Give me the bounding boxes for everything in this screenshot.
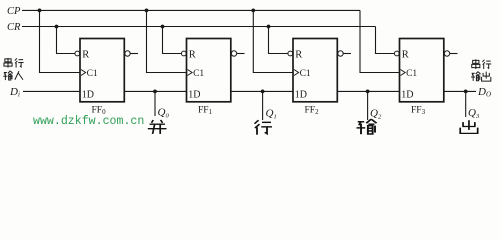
CR drop to FF0 R — [57, 27, 75, 54]
label 串行 (serial) output, right — [472, 59, 491, 69]
CR drop to FF3 R — [376, 27, 395, 54]
node Q3 junction and drop — [464, 90, 468, 94]
junction dot CR-FF2 — [267, 25, 271, 29]
CR drop to FF1 R — [163, 27, 182, 54]
svg-text:Q3: Q3 — [468, 107, 480, 120]
CP drop to FF2 C1 — [253, 10, 293, 72]
svg-text:www.dzkfw.com.cn: www.dzkfw.com.cn — [33, 115, 144, 128]
CR drop to FF2 R — [269, 27, 288, 54]
flip-flop FF0 — [75, 39, 138, 102]
junction dot CR-FF1 — [161, 25, 165, 29]
CP bus line — [22, 9, 360, 11]
svg-text:FF1: FF1 — [198, 105, 213, 116]
label 串行 (serial) input, left — [4, 58, 24, 68]
node Q0 junction and drop — [153, 90, 157, 94]
wire Q1 to FF2 1D — [231, 90, 293, 92]
svg-text:Q1: Q1 — [266, 107, 277, 120]
svg-text:CP: CP — [7, 6, 21, 17]
junction dot CR-FF0 — [55, 25, 59, 29]
svg-text:Q2: Q2 — [370, 107, 382, 120]
label 并 (parallel) — [148, 120, 167, 134]
label 行 — [255, 120, 273, 135]
junction dot CP-FF1 — [145, 9, 149, 13]
node Q1 junction and drop — [261, 90, 265, 94]
label 输 — [357, 119, 377, 134]
svg-text:FF2: FF2 — [305, 105, 320, 116]
node Q2 junction and drop — [366, 90, 370, 94]
CR bus line — [22, 26, 376, 28]
svg-text:Di: Di — [9, 86, 20, 99]
svg-text:DO: DO — [477, 86, 491, 99]
junction dot CP-FF2 — [251, 9, 255, 13]
label 出 — [460, 120, 477, 133]
CP drop to FF3 C1 — [360, 10, 400, 72]
svg-text:CR: CR — [7, 22, 21, 33]
svg-text:FF3: FF3 — [411, 105, 426, 116]
wire Q0 to FF1 1D — [124, 90, 186, 92]
wire Q3 to Do output — [444, 90, 476, 92]
svg-text:Q0: Q0 — [158, 106, 170, 119]
flip-flop FF2 — [288, 39, 351, 102]
CP drop to FF1 C1 — [147, 10, 187, 72]
junction dot CP-FF0 — [38, 9, 42, 13]
CP drop to FF0 C1 — [40, 10, 81, 72]
wire Di input to FF0 1D — [23, 90, 80, 92]
label 输出 (output), right — [471, 72, 491, 82]
flip-flop FF3 — [394, 39, 457, 102]
flip-flop FF1 — [181, 39, 244, 102]
label 输入 (input), left — [3, 71, 23, 80]
wire Q2 to FF3 1D — [337, 90, 399, 92]
